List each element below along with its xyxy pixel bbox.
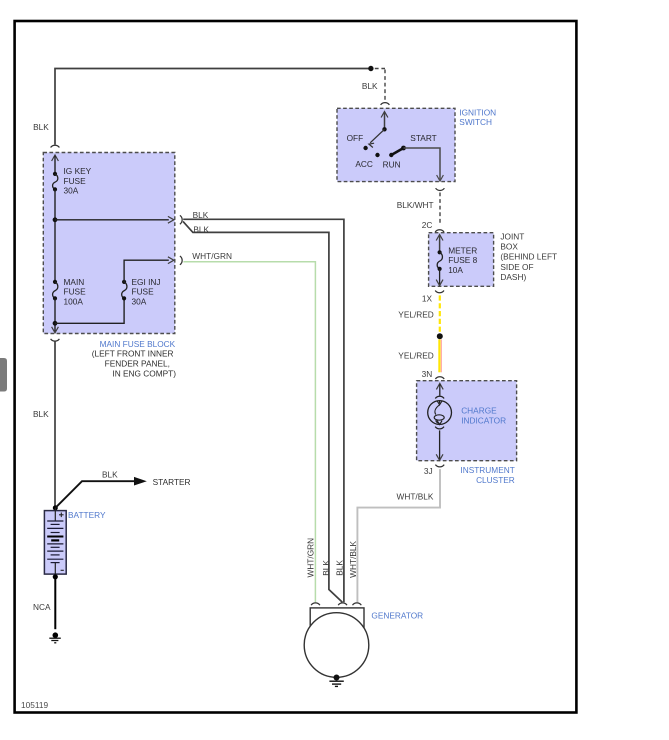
ignition OFF terminal bbox=[363, 146, 367, 150]
meter fuse 8 10A bbox=[438, 250, 442, 254]
svg-text:GENERATOR: GENERATOR bbox=[371, 610, 423, 620]
svg-text:3J: 3J bbox=[424, 466, 433, 476]
ground battery bbox=[53, 632, 59, 638]
wire YEL/RED solid bbox=[438, 339, 440, 372]
svg-text:2C: 2C bbox=[422, 220, 433, 230]
svg-text:3N: 3N bbox=[422, 369, 433, 379]
svg-text:NCA: NCA bbox=[33, 602, 51, 612]
cluster exit wire bbox=[439, 430, 441, 459]
fuse block lower bus bbox=[54, 298, 56, 331]
svg-text:SIDE OF: SIDE OF bbox=[500, 262, 533, 272]
connector cup fuse block WHT/GRN exit bbox=[180, 256, 182, 265]
svg-text:WHT/GRN: WHT/GRN bbox=[192, 251, 232, 261]
connector cup joint box bottom bbox=[435, 291, 444, 293]
svg-text:YEL/RED: YEL/RED bbox=[398, 310, 434, 320]
junction node top BLK bbox=[368, 66, 373, 71]
svg-text:WHT/BLK: WHT/BLK bbox=[348, 540, 358, 577]
connector cup ignition bottom bbox=[436, 188, 445, 190]
wire BLK to starter bbox=[55, 481, 134, 508]
svg-text:JOINT: JOINT bbox=[500, 232, 524, 242]
ignition RUN-START arm bbox=[391, 148, 403, 155]
svg-text:BLK: BLK bbox=[334, 560, 344, 576]
fuse block main bus bbox=[54, 189, 56, 282]
svg-text:OFF: OFF bbox=[347, 133, 364, 143]
wire BLK battery-feed top-left bbox=[55, 69, 369, 145]
connector cup fuse block top bbox=[51, 145, 60, 147]
ignition switch box bbox=[337, 108, 455, 181]
svg-text:FUSE: FUSE bbox=[132, 287, 155, 297]
lamp top cup bbox=[435, 396, 444, 398]
svg-text:DASH): DASH) bbox=[500, 272, 526, 282]
svg-text:100A: 100A bbox=[64, 296, 84, 306]
junction node YEL/RED bbox=[437, 333, 443, 339]
svg-text:IN ENG COMPT): IN ENG COMPT) bbox=[112, 368, 176, 378]
joint box (meter fuse 8) bbox=[429, 233, 494, 287]
fuse block entry arrow bbox=[52, 155, 59, 161]
ignition pivot node bbox=[382, 127, 386, 131]
svg-text:1X: 1X bbox=[422, 293, 433, 303]
svg-text:BLK/WHT: BLK/WHT bbox=[397, 200, 434, 210]
wire to BLK exit bbox=[55, 219, 169, 221]
lamp filament bbox=[439, 401, 441, 404]
svg-text:IGNITION: IGNITION bbox=[459, 107, 496, 117]
wire dashed BLK into ignition switch bbox=[375, 68, 385, 70]
battery cells and terminals bbox=[54, 508, 56, 521]
main fuse block box bbox=[43, 153, 175, 334]
svg-text:WHT/BLK: WHT/BLK bbox=[397, 491, 434, 501]
svg-text:10A: 10A bbox=[448, 265, 463, 275]
wire EGI to WHT/GRN exit bbox=[124, 260, 169, 282]
ignition START pivot bbox=[401, 146, 406, 151]
instrument cluster box bbox=[417, 381, 517, 461]
svg-text:(LEFT FRONT INNER: (LEFT FRONT INNER bbox=[92, 348, 174, 358]
svg-text:START: START bbox=[410, 133, 436, 143]
svg-text:FUSE: FUSE bbox=[64, 287, 87, 297]
svg-text:BLK: BLK bbox=[362, 81, 378, 91]
svg-text:CLUSTER: CLUSTER bbox=[476, 475, 515, 485]
charge indicator lamp circle bbox=[428, 401, 452, 425]
ignition wiper OFF arm bbox=[370, 129, 384, 143]
ignition ACC terminal bbox=[375, 153, 379, 157]
svg-text:INSTRUMENT: INSTRUMENT bbox=[460, 465, 514, 475]
ignition output wire bbox=[404, 148, 441, 180]
svg-text:BLK: BLK bbox=[33, 122, 49, 132]
svg-text:30A: 30A bbox=[64, 186, 79, 196]
generator body circle bbox=[304, 613, 369, 678]
generator terminal cups bbox=[311, 603, 320, 605]
connector cup ignition top bbox=[381, 103, 390, 105]
junction node bus-EGI bbox=[53, 321, 58, 326]
svg-text:BLK: BLK bbox=[321, 560, 331, 576]
svg-text:FUSE: FUSE bbox=[64, 176, 87, 186]
svg-text:BLK: BLK bbox=[193, 225, 209, 235]
junction node battery- bbox=[53, 574, 58, 579]
svg-text:IG KEY: IG KEY bbox=[64, 166, 92, 176]
wire WHT/BLK bbox=[357, 469, 440, 602]
wire battery to ground bbox=[54, 577, 56, 629]
generator housing bbox=[310, 608, 364, 638]
wire dashed BLK/WHT bbox=[439, 193, 441, 226]
joint entry arrow bbox=[436, 235, 443, 241]
wire YEL/RED dashed bbox=[439, 295, 441, 332]
svg-text:INDICATOR: INDICATOR bbox=[461, 415, 506, 425]
cluster entry arrow bbox=[436, 383, 443, 389]
connector cup cluster top bbox=[435, 377, 444, 379]
svg-text:BLK: BLK bbox=[193, 210, 209, 220]
svg-text:MAIN FUSE BLOCK: MAIN FUSE BLOCK bbox=[100, 339, 176, 349]
svg-text:30A: 30A bbox=[132, 296, 147, 306]
page frame border bbox=[15, 21, 577, 713]
svg-text:105119: 105119 bbox=[21, 700, 48, 710]
svg-text:MAIN: MAIN bbox=[64, 277, 85, 287]
svg-text:STARTER: STARTER bbox=[153, 477, 191, 487]
wire BLK fuse block to battery bbox=[54, 342, 56, 507]
wire BLK gen 2 bbox=[183, 221, 342, 602]
svg-text:CHARGE: CHARGE bbox=[461, 405, 497, 415]
svg-text:RUN: RUN bbox=[383, 160, 401, 170]
wire WHT/GRN bbox=[183, 262, 315, 602]
left edge scroll tab bbox=[0, 358, 7, 392]
junction node battery+ bbox=[53, 505, 58, 510]
svg-text:EGI INJ: EGI INJ bbox=[132, 277, 161, 287]
lamp bottom cup bbox=[435, 427, 444, 429]
connector cup fuse block BLK exit bbox=[180, 215, 182, 224]
junction node bus-BLK bbox=[53, 217, 58, 222]
EGI INJ fuse 30A bbox=[122, 280, 126, 284]
svg-text:BOX: BOX bbox=[500, 242, 518, 252]
starter arrowhead bbox=[134, 477, 147, 486]
svg-text:(BEHIND LEFT: (BEHIND LEFT bbox=[500, 252, 557, 262]
wire BLK gen 1 bbox=[183, 219, 344, 602]
svg-text:BLK: BLK bbox=[33, 409, 49, 419]
main fuse 100A bbox=[53, 280, 57, 284]
connector cup fuse block bottom bbox=[51, 339, 60, 341]
connector cup joint box top bbox=[435, 230, 444, 232]
svg-text:FENDER PANEL,: FENDER PANEL, bbox=[105, 359, 170, 369]
svg-text:SWITCH: SWITCH bbox=[459, 117, 492, 127]
wire bus to EGI fuse bbox=[55, 298, 124, 323]
ignition entry arrow bbox=[381, 112, 388, 118]
ground generator bbox=[334, 675, 340, 681]
svg-text:METER: METER bbox=[448, 246, 477, 256]
joint exit wire bbox=[439, 269, 441, 284]
svg-text:WHT/GRN: WHT/GRN bbox=[306, 538, 316, 578]
svg-text:FUSE 8: FUSE 8 bbox=[448, 255, 477, 265]
svg-text:BLK: BLK bbox=[102, 469, 118, 479]
svg-text:ACC: ACC bbox=[355, 159, 373, 169]
battery body bbox=[44, 511, 66, 574]
ig key fuse 30A bbox=[53, 172, 57, 176]
svg-text:BATTERY: BATTERY bbox=[68, 510, 106, 520]
ignition RUN terminal bbox=[389, 153, 393, 157]
svg-text:YEL/RED: YEL/RED bbox=[398, 351, 434, 361]
connector cup cluster bottom bbox=[435, 465, 444, 467]
